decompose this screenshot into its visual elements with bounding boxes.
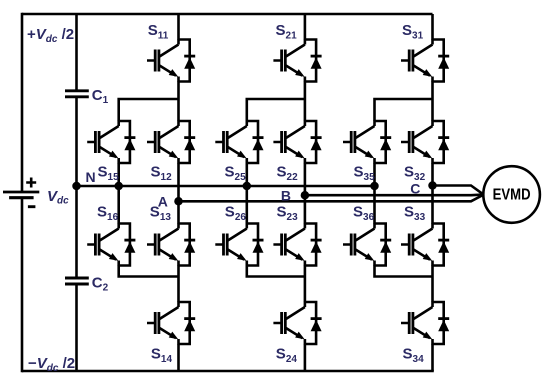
IGBT switch S31: [401, 39, 449, 82]
battery Vdc negative plate: [9, 196, 33, 199]
junction dot S35-S36: [370, 182, 379, 191]
wire phase C clamp branch: [375, 99, 433, 277]
IGBT switch S22: [273, 121, 321, 164]
junction dot S15-S16: [114, 182, 123, 191]
svg-text:EVMD: EVMD: [493, 187, 531, 204]
IGBT switch S24: [273, 302, 321, 345]
capacitor C2: [65, 278, 89, 284]
battery plus sign: [26, 178, 36, 188]
IGBT switch S33: [401, 223, 449, 266]
IGBT switch S36: [343, 223, 391, 266]
wire DC-link bus upper segment: [75, 14, 78, 91]
IGBT switch S16: [87, 223, 135, 266]
junction dot S25-S26: [243, 182, 252, 191]
junction dot node B: [301, 191, 310, 200]
wire left battery branch upper: [21, 13, 24, 192]
IGBT switch S21: [273, 39, 321, 82]
junction dot bus neutral: [72, 182, 81, 191]
motor EVMD circle: [483, 166, 540, 223]
wire output phase A to motor: [179, 195, 484, 201]
wire phase A leg main: [177, 14, 180, 371]
capacitor C1: [65, 91, 89, 97]
IGBT switch S25: [215, 121, 263, 164]
wire neutral line N: [77, 185, 375, 188]
wire bottom DC rail: [22, 370, 434, 373]
IGBT switch S13: [147, 223, 195, 266]
wire output phase C to motor: [433, 186, 484, 195]
wire DC-link bus middle segment: [75, 97, 78, 278]
IGBT switch S11: [147, 39, 195, 82]
IGBT switch S14: [147, 302, 195, 345]
wire DC-link bus lower segment: [75, 284, 78, 371]
IGBT switch S32: [401, 121, 449, 164]
wire phase A clamp branch: [119, 99, 179, 277]
svg-text:N: N: [86, 169, 96, 185]
IGBT switch S26: [215, 223, 263, 266]
IGBT switch S35: [343, 121, 391, 164]
IGBT switch S23: [273, 223, 321, 266]
IGBT switch S15: [87, 121, 135, 164]
svg-text:B: B: [281, 188, 291, 204]
battery minus sign: [28, 205, 36, 208]
wire top DC rail: [22, 13, 433, 16]
wire phase B leg main: [304, 14, 307, 371]
junction dot node A: [174, 197, 183, 206]
IGBT switch S34: [401, 302, 449, 345]
IGBT switch S12: [147, 121, 195, 164]
wire output phase B to motor: [305, 193, 483, 196]
wire phase B clamp branch: [247, 99, 305, 277]
battery Vdc positive plate: [3, 191, 39, 194]
wire left battery branch lower: [21, 198, 24, 373]
wire phase C leg main: [431, 14, 434, 371]
junction dot node C: [428, 181, 437, 190]
